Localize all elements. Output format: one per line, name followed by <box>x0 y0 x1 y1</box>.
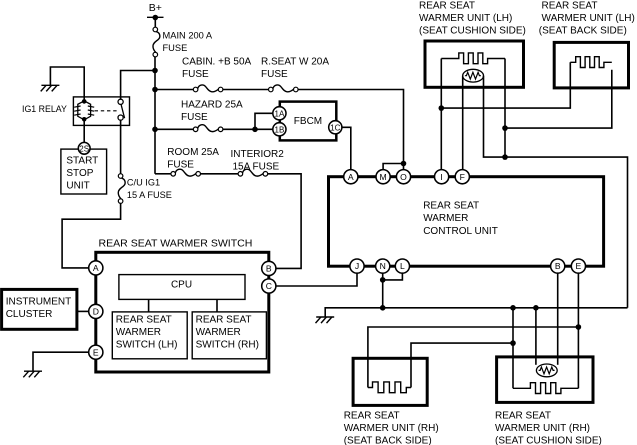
svg-text:CONTROL UNIT: CONTROL UNIT <box>423 226 498 237</box>
svg-text:15 A FUSE: 15 A FUSE <box>127 190 172 200</box>
svg-text:WARMER: WARMER <box>196 327 241 338</box>
svg-text:HAZARD 25A: HAZARD 25A <box>181 99 243 110</box>
svg-text:CPU: CPU <box>171 280 192 291</box>
junction on bus <box>510 305 516 311</box>
svg-text:FBCM: FBCM <box>294 116 322 127</box>
svg-text:1A: 1A <box>275 109 285 118</box>
heater element RH back <box>368 382 411 393</box>
relay ground wire <box>50 67 84 101</box>
heater element LH back <box>570 57 612 68</box>
warmer unit LH back box <box>554 42 628 88</box>
svg-text:REAR SEAT WARMER SWITCH: REAR SEAT WARMER SWITCH <box>99 237 253 249</box>
relay coil <box>82 99 87 104</box>
pin A <box>344 170 358 184</box>
fuse R.SEAT W 20A <box>269 85 299 92</box>
wire cluster to pin D <box>77 310 89 312</box>
ground <box>41 84 59 86</box>
pin E <box>89 345 103 359</box>
svg-text:SWITCH (LH): SWITCH (LH) <box>116 340 178 351</box>
wire to relay switch <box>121 71 155 100</box>
junction on bus <box>533 305 539 311</box>
relay switch blade <box>121 104 125 118</box>
wire HAZARD fuse row <box>155 128 193 130</box>
svg-text:1C: 1C <box>330 123 340 132</box>
wire heater right down <box>504 59 506 158</box>
switch box <box>96 252 269 372</box>
svg-text:C/U IG1: C/U IG1 <box>127 178 160 188</box>
svg-text:MAIN 200 A: MAIN 200 A <box>163 31 213 41</box>
junction <box>502 125 508 131</box>
svg-text:(SEAT BACK SIDE): (SEAT BACK SIDE) <box>344 436 432 445</box>
svg-text:WARMER UNIT (LH): WARMER UNIT (LH) <box>419 13 512 24</box>
thermistor RH cushion <box>536 364 557 377</box>
svg-text:O: O <box>400 172 407 182</box>
svg-text:FUSE: FUSE <box>261 69 288 80</box>
junction <box>152 87 158 93</box>
fuse CABIN. +B 50A <box>193 85 223 92</box>
ground bus wire <box>325 308 627 317</box>
wire R.SEAT feed to pin O <box>298 90 403 170</box>
wire heater left to pin I <box>440 59 442 170</box>
pin C <box>262 279 276 293</box>
wire fuse to switch pin A <box>62 203 121 268</box>
svg-text:REAR SEAT: REAR SEAT <box>423 200 479 211</box>
svg-text:REAR SEAT: REAR SEAT <box>344 411 400 422</box>
junction <box>510 340 516 346</box>
wire CPU stem right <box>216 299 218 312</box>
wire pin E down <box>577 273 579 388</box>
relay dashed link <box>95 110 119 112</box>
pin E <box>571 259 585 273</box>
svg-text:REAR SEAT: REAR SEAT <box>495 411 551 422</box>
svg-text:REAR SEAT: REAR SEAT <box>542 1 598 12</box>
svg-text:INSTRUMENT: INSTRUMENT <box>6 297 72 308</box>
wire M jumper <box>383 164 403 170</box>
wire to FBCM 1A <box>255 113 272 129</box>
svg-text:C: C <box>266 281 272 291</box>
pin M <box>376 170 390 184</box>
REAR SEAT WARMER CONTROL UNIT box <box>329 177 604 267</box>
fuse HAZARD 25A <box>193 125 223 132</box>
svg-text:INTERIOR2: INTERIOR2 <box>231 149 285 160</box>
pin B <box>551 259 565 273</box>
svg-text:WARMER: WARMER <box>116 327 161 338</box>
svg-text:REAR SEAT: REAR SEAT <box>116 315 172 326</box>
FBCM box <box>280 102 337 141</box>
switch LH box <box>112 312 187 359</box>
INSTRUMENT CLUSTER box <box>2 289 77 329</box>
wire to back unit right <box>411 343 513 387</box>
ground <box>24 370 42 372</box>
pin 1A <box>273 107 286 120</box>
junction <box>152 127 158 133</box>
wire to FBCM 1B <box>223 128 272 130</box>
svg-text:(SEAT BACK SIDE): (SEAT BACK SIDE) <box>539 25 627 36</box>
svg-text:(SEAT CUSHION SIDE): (SEAT CUSHION SIDE) <box>419 25 526 36</box>
heater element LH cushion <box>441 53 505 64</box>
svg-text:CLUSTER: CLUSTER <box>6 309 53 320</box>
svg-text:CABIN. +B 50A: CABIN. +B 50A <box>182 57 252 68</box>
wire coil to 2S <box>83 119 85 142</box>
pin A <box>89 261 103 275</box>
wire CPU stem left <box>148 299 150 312</box>
svg-text:B+: B+ <box>149 2 162 14</box>
fuse MAIN 200 A <box>153 27 160 57</box>
ground <box>316 316 334 318</box>
svg-text:WARMER: WARMER <box>423 213 468 224</box>
wire CABIN fuse row <box>155 89 193 91</box>
warmer unit LH cushion box <box>425 41 524 87</box>
relay switch contacts <box>118 99 123 104</box>
svg-text:WARMER UNIT (RH): WARMER UNIT (RH) <box>495 423 590 434</box>
pin I <box>435 170 449 184</box>
wire thermistor left to pin F <box>462 76 464 170</box>
fuse ROOM 25A <box>171 169 201 176</box>
junction on bus <box>380 305 386 311</box>
wire 1C to pin A <box>342 127 351 169</box>
svg-text:B: B <box>266 264 272 274</box>
svg-text:1B: 1B <box>275 125 285 134</box>
svg-text:15A FUSE: 15A FUSE <box>233 162 280 173</box>
pin F <box>455 170 469 184</box>
svg-text:2S: 2S <box>79 144 89 153</box>
CPU box <box>119 275 245 300</box>
svg-text:FUSE: FUSE <box>181 112 208 123</box>
junction above O <box>401 161 407 167</box>
junction <box>439 105 445 111</box>
svg-text:L: L <box>400 261 405 271</box>
junction <box>502 154 508 160</box>
svg-text:E: E <box>93 347 99 357</box>
svg-text:ROOM 25A: ROOM 25A <box>167 147 219 158</box>
pin N <box>376 259 390 273</box>
B+ terminal <box>147 16 164 18</box>
svg-text:F: F <box>460 172 465 182</box>
wire main bus <box>154 57 156 174</box>
wire pin C to pin J <box>276 273 357 286</box>
heater element RH cushion <box>513 383 578 394</box>
junction <box>252 127 258 133</box>
switch RH box <box>192 312 266 359</box>
wire relay to C/U fuse <box>120 120 122 173</box>
wire L to N <box>383 273 403 280</box>
wire ROOM/INTERIOR2 fuse row <box>155 173 171 175</box>
svg-text:REAR SEAT: REAR SEAT <box>196 315 252 326</box>
svg-text:E: E <box>576 261 582 271</box>
svg-text:N: N <box>380 261 386 271</box>
wire <box>223 89 269 91</box>
pin B <box>262 261 276 275</box>
wire INTERIOR2 to switch pin B <box>268 174 301 269</box>
wire ground to RH thermistor left <box>535 308 537 365</box>
junction <box>576 324 582 330</box>
svg-text:(SEAT CUSHION SIDE): (SEAT CUSHION SIDE) <box>495 436 602 445</box>
fuse INTERIOR2 15A <box>238 169 268 176</box>
pin 1B <box>273 123 286 136</box>
wire E net to back unit left <box>368 327 579 388</box>
junction <box>152 68 158 74</box>
wire N to ground bus <box>382 273 384 308</box>
wire to back unit right <box>505 70 612 128</box>
junction <box>380 277 386 283</box>
fuse C/U IG1 15 A <box>118 174 125 204</box>
svg-text:FUSE: FUSE <box>182 69 209 80</box>
svg-text:B: B <box>555 261 561 271</box>
svg-text:REAR SEAT: REAR SEAT <box>419 1 475 12</box>
wire <box>154 18 156 28</box>
relay IG1 box <box>73 97 129 126</box>
pin L <box>395 259 409 273</box>
svg-text:FUSE: FUSE <box>163 43 188 53</box>
START STOP UNIT box <box>61 149 107 194</box>
svg-text:A: A <box>348 172 354 182</box>
pin J <box>350 259 364 273</box>
svg-text:WARMER UNIT (RH): WARMER UNIT (RH) <box>344 423 439 434</box>
svg-text:FUSE: FUSE <box>167 160 194 171</box>
wire ground to RH cushion heater left <box>512 308 514 389</box>
svg-text:SWITCH (RH): SWITCH (RH) <box>196 340 259 351</box>
svg-text:WARMER UNIT (LH): WARMER UNIT (LH) <box>542 13 635 24</box>
svg-text:D: D <box>93 307 99 317</box>
thermistor LH cushion <box>463 69 484 82</box>
svg-text:R.SEAT W 20A: R.SEAT W 20A <box>261 57 329 68</box>
svg-text:START: START <box>66 156 98 167</box>
pin 2S <box>78 142 90 154</box>
svg-text:IG1 RELAY: IG1 RELAY <box>22 104 67 114</box>
warmer unit RH back box <box>353 358 427 405</box>
wire pin B to RH thermistor <box>557 273 559 365</box>
pin 1C <box>329 121 342 134</box>
svg-text:J: J <box>355 261 359 271</box>
svg-text:STOP: STOP <box>66 168 93 179</box>
wire thermistor right to ground net <box>484 76 628 308</box>
wire <box>201 173 239 175</box>
svg-text:A: A <box>93 263 99 273</box>
wire to back unit left <box>441 62 570 108</box>
svg-text:I: I <box>440 172 442 182</box>
warmer unit RH cushion box <box>497 357 593 403</box>
wire pin E to ground <box>33 352 89 371</box>
svg-text:UNIT: UNIT <box>66 181 89 192</box>
pin D <box>89 304 103 318</box>
svg-text:M: M <box>380 172 387 182</box>
pin O <box>396 170 410 184</box>
